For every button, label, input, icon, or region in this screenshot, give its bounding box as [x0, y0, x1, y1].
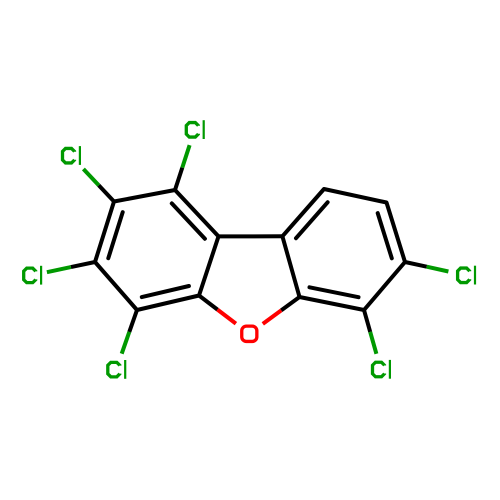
double bond C1=C9b inner line	[172, 203, 205, 238]
bond C4-Cl	[129, 310, 137, 332]
bond C2-Cl	[99, 185, 114, 201]
left benzene ring (C1-C2-C3-C4-C4a-C9b)	[95, 190, 219, 310]
double bond C9a=C9 inner line	[296, 202, 328, 238]
oxygen O of furan ring	[242, 326, 257, 341]
bond C6-Cl	[364, 310, 370, 332]
chlorine Cl on C3	[24, 268, 36, 283]
chlorine Cl on C6	[373, 362, 385, 377]
bond C5a-O	[281, 297, 299, 310]
bond C4a-O	[199, 296, 218, 310]
chlorine Cl on C7	[458, 268, 470, 283]
double bond C2=C3 inner line	[108, 212, 122, 258]
chlorine Cl on C1	[186, 123, 198, 138]
bond C1-Cl	[175, 168, 182, 190]
right benzene ring (C9a-C9-C8-C7-C6-C5a)	[282, 189, 405, 310]
double bond C7=C8 inner line	[378, 213, 392, 258]
bond C3-Cl	[71, 262, 95, 267]
chlorine Cl on C2	[63, 148, 75, 163]
bond C7-Cl	[405, 262, 427, 267]
double bond C4=C4a inner line	[142, 286, 189, 297]
bond C9b-C9a (furan top)	[219, 234, 283, 238]
chlorine Cl on C4	[108, 362, 120, 377]
double bond C5a=C6 inner line	[310, 287, 359, 297]
